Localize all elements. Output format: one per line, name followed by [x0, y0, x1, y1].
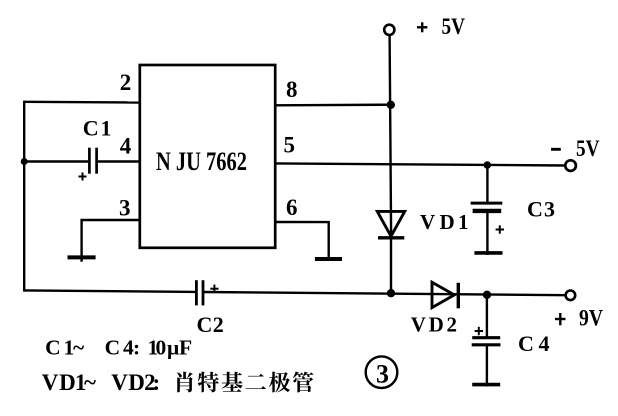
wire pin 8 to +5V rail — [275, 103, 391, 106]
node junction pin8 / +5V rail — [387, 101, 395, 109]
wire C3 top lead — [486, 165, 488, 203]
wire pin 6 with bend — [275, 222, 329, 260]
svg-text:C1: C1 — [83, 116, 112, 141]
terminal +9V — [566, 291, 576, 301]
capacitor C4 top plate — [472, 336, 500, 339]
ground pin 3 — [68, 255, 96, 259]
svg-text:2: 2 — [120, 70, 132, 95]
svg-text:4: 4 — [120, 134, 132, 159]
wire pin 4 left segment to C1 — [24, 160, 88, 162]
capacitor C2 plates — [195, 280, 198, 305]
wire bottom line left segment to C2 — [24, 290, 196, 292]
wire pin 3 with bend — [82, 220, 140, 262]
node junction left rail / pin4 wire — [21, 158, 28, 165]
svg-text:C3: C3 — [527, 197, 555, 222]
capacitor C1 polarity plus — [79, 173, 87, 181]
wire C4 top lead — [486, 295, 488, 338]
svg-text:3: 3 — [119, 196, 131, 221]
svg-text:5V: 5V — [576, 136, 600, 162]
wire bottom line C2 to +9V terminal — [203, 292, 566, 295]
capacitor C3 bottom plate — [473, 209, 502, 213]
capacitor C4 polarity plus — [475, 327, 483, 335]
svg-text:C2: C2 — [197, 312, 224, 337]
svg-text:VD1~VD2:: VD1~VD2: — [42, 370, 160, 395]
diode VD2 cathode bar — [457, 283, 460, 309]
capacitor C3 top plate — [471, 202, 503, 205]
ground C3 — [474, 251, 502, 255]
svg-text:3: 3 — [376, 360, 389, 389]
node junction C3 / -5V line — [484, 161, 492, 169]
minus sign of -5V label — [551, 148, 561, 151]
diode VD1 cathode bar — [378, 236, 404, 239]
capacitor C3 polarity plus — [496, 225, 504, 233]
figure number circle — [366, 356, 398, 388]
svg-text:5: 5 — [284, 133, 296, 158]
svg-text:C4: C4 — [518, 331, 550, 356]
capacitor C4 bottom plate — [472, 343, 501, 346]
svg-text:9V: 9V — [579, 306, 603, 331]
wire C1 to pin 4 — [98, 160, 140, 162]
svg-text:5V: 5V — [442, 14, 466, 40]
note line 2 chinese characters — [177, 372, 193, 393]
plus sign of +9V label — [555, 313, 566, 325]
svg-text:8: 8 — [286, 77, 298, 102]
diode VD2 triangle — [432, 282, 454, 307]
ground C4 — [472, 383, 500, 387]
svg-text:N JU 7662: N JU 7662 — [156, 147, 247, 176]
node junction VD2 output / C4 — [483, 291, 491, 299]
node junction VD1 / 9V line — [387, 289, 395, 297]
diode VD1 triangle — [377, 211, 404, 236]
wire C4 bottom lead — [486, 345, 488, 387]
terminal +5V — [384, 25, 394, 35]
wire +5V vertical — [390, 35, 392, 234]
capacitor C1 plates — [88, 148, 91, 174]
svg-text:VD2: VD2 — [411, 313, 457, 337]
wire left rail vertical — [23, 101, 25, 292]
wire pin 2 to left rail — [24, 101, 140, 104]
ground pin 6 — [315, 257, 342, 261]
op-amp U1 NJU7662 IC body — [140, 65, 275, 248]
terminal -5V — [565, 160, 576, 171]
capacitor C2 polarity plus — [210, 285, 218, 293]
svg-text:C1~C4:10μF: C1~C4:10μF — [45, 336, 192, 360]
svg-text:6: 6 — [286, 195, 298, 220]
plus sign of +5V label — [417, 22, 427, 32]
svg-text:VD1: VD1 — [420, 210, 469, 234]
wire pin 5 / -5V line — [275, 163, 565, 165]
wire C3 bottom lead — [486, 211, 488, 255]
wire VD1 cathode to 9V line — [390, 238, 392, 293]
